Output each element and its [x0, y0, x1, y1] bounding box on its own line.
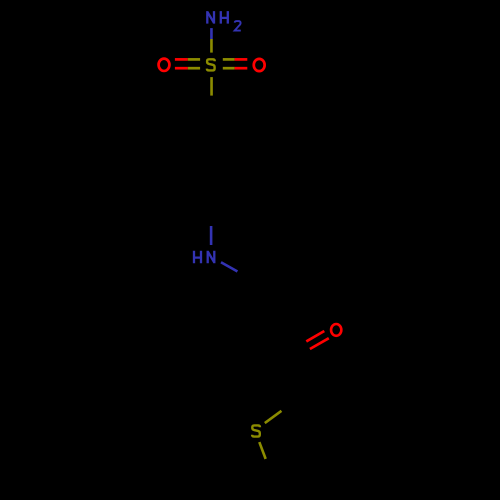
bond N1-S1 nitrogen half (blue): [210, 28, 213, 39]
label H of NH2: [221, 11, 228, 24]
double bond C9=O3 upper line, red half: [306, 331, 324, 341]
bond C9-C10 (black on black): [296, 353, 299, 399]
label O (ketone oxygen O3): [331, 324, 341, 336]
bond C4-N2 carbon half (black on black): [210, 195, 213, 226]
bond N2-C7 nitrogen half (blue): [221, 262, 238, 271]
label S (sulfonyl sulfur S1): [207, 59, 215, 70]
double bond S1=O1 upper line, olive half: [188, 58, 200, 61]
bond C7-C8 (black on black): [251, 287, 265, 319]
double bond C9=O3 lower line, red half: [310, 338, 329, 349]
bond N2-C7 carbon half (black on black): [238, 272, 265, 287]
double bond C9=O3 upper line, carbon half (black on black): [296, 341, 307, 347]
double bond S1=O2 upper line, olive half: [223, 58, 235, 61]
double bond S1=O2 lower line, red half: [235, 67, 248, 70]
bond S1-C1 sulfur half (olive): [210, 77, 213, 96]
bond N1-S1 sulfur half (olive): [210, 39, 213, 53]
double bond C9=O3 lower line, carbon half (black on black): [300, 349, 310, 355]
label N of HN (secondary amine N2): [208, 251, 215, 263]
label N of NH2 (sulfonamide nitrogen N1): [207, 11, 214, 24]
double bond S1=O1 upper line, red half: [175, 58, 188, 61]
benzene ring C1-C2-C3-C4-C5-C6 (black on black): [182, 126, 242, 195]
bond S1-C1 carbon half (black on black): [210, 96, 213, 126]
double bond S1=O2 lower line, olive half: [223, 67, 235, 70]
label H of HN (secondary amine): [194, 251, 201, 263]
label S (thiophene sulfur S2): [252, 425, 260, 436]
bond S2-C13 sulfur half (olive): [259, 442, 265, 459]
label subscript 2 of NH2: [235, 21, 241, 31]
label O right (sulfonyl oxygen O2): [254, 59, 265, 71]
bond C8-C9 (black on black): [251, 318, 296, 353]
bond S2-C10 sulfur half (olive): [265, 411, 282, 423]
thiophene ring carbon bonds C10-C11-C12-C13 (black on black): [272, 399, 346, 477]
label O left (sulfonyl oxygen O1): [159, 59, 170, 71]
double bond S1=O1 lower line, olive half: [188, 67, 200, 70]
double bond S1=O2 upper line, red half: [235, 58, 248, 61]
bond C4-N2 nitrogen half (blue): [210, 226, 213, 245]
bond S2-C13 carbon half (black on black): [266, 459, 272, 476]
bond S2-C10 carbon half (black on black): [282, 399, 299, 411]
double bond S1=O1 lower line, red half: [175, 67, 188, 70]
